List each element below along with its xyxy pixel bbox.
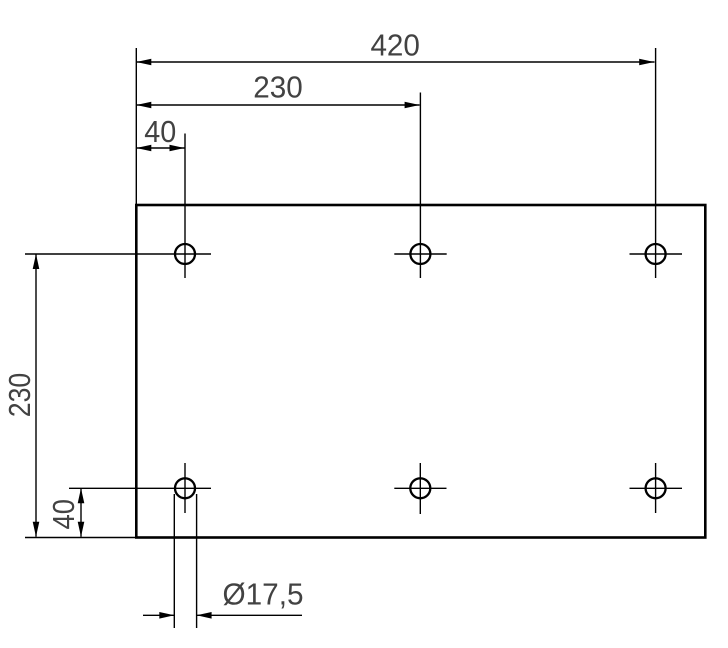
centerline H4 vertical (184, 463, 186, 513)
centerline H6 vertical (655, 463, 657, 513)
leader line diameter left segment (143, 614, 174, 616)
centerline H3 horizontal (630, 253, 683, 255)
arrow 40 left (136, 145, 151, 152)
centerline H2 vertical (merged with 230 extension line) (419, 93, 421, 279)
svg-text:40: 40 (144, 114, 176, 149)
hole H1 top-left (175, 244, 195, 264)
arrow 230 right (405, 102, 420, 109)
svg-text:230: 230 (253, 69, 303, 104)
centerline H5 horizontal (394, 487, 446, 489)
hole H3 top-right (646, 244, 666, 264)
extension line hole diameter left (173, 494, 175, 628)
arrow 420 right (639, 59, 654, 66)
arrow diameter left (points right) (159, 612, 174, 619)
centerline H4 horizontal (merged with 40 extension line) (69, 487, 211, 489)
arrow 420 left (136, 59, 151, 66)
leader line diameter right segment (197, 614, 302, 616)
arrow 230 left (136, 102, 151, 109)
arrow 40 right (170, 145, 185, 152)
centerline H1 horizontal (merged with 230 extension line) (25, 253, 211, 255)
hole H4 bottom-left (175, 478, 195, 498)
arrow 230 vertical bottom (33, 522, 40, 537)
centerline H5 vertical (419, 463, 421, 514)
extension line hole diameter right (196, 494, 198, 628)
hole H6 bottom-right (646, 478, 666, 498)
svg-text:40: 40 (46, 499, 81, 530)
hole H5 bottom-middle (410, 478, 430, 498)
arrow diameter right (points left) (197, 612, 212, 619)
plate outline (136, 205, 705, 538)
svg-text:420: 420 (370, 27, 420, 62)
dimension line 40 left vertical (80, 488, 82, 537)
arrow 40 vertical top (78, 488, 85, 503)
dimension line 230 left vertical (35, 254, 37, 537)
centerline H1 vertical (merged with 40 extension line) (184, 134, 186, 279)
centerline H2 horizontal (394, 253, 446, 255)
centerline H6 horizontal (630, 487, 683, 489)
hole H2 top-middle (410, 244, 430, 264)
dimension line 420 (136, 61, 654, 63)
centerline H3 vertical (merged with 420 extension line) (655, 48, 657, 278)
svg-text:Ø17,5: Ø17,5 (223, 577, 304, 612)
dimension line 40 top (136, 147, 184, 149)
arrow 40 vertical bottom (78, 522, 85, 537)
dimension line 230 top (136, 104, 419, 106)
extension line left (plate left edge, above plate) (135, 48, 137, 205)
svg-text:230: 230 (2, 373, 37, 418)
extension line bottom edge left (25, 537, 136, 539)
arrow 230 vertical top (33, 254, 40, 269)
